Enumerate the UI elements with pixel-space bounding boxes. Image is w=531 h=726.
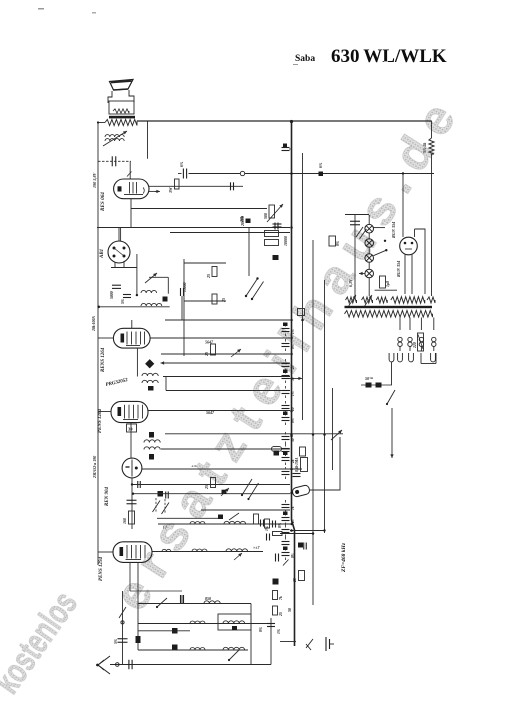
- transformer secondary winding: [345, 311, 433, 318]
- capacitor at 230,187: [230, 182, 232, 190]
- capacitor bus col y459: [282, 457, 290, 459]
- variable arrow det: [145, 273, 157, 283]
- capacitor bus col y419: [282, 417, 290, 419]
- tuning coil with core arrow: [105, 135, 124, 137]
- svg-text:25: 25: [204, 485, 209, 490]
- svg-text:1%: 1%: [291, 329, 295, 334]
- arrow var mid: [331, 430, 342, 440]
- transformer aux winding: [427, 297, 435, 303]
- wire grid line to right bus: [245, 173, 434, 175]
- capacitor bus col y330: [282, 328, 290, 330]
- resistor 25 a: [212, 267, 217, 277]
- wire rect frame: [415, 229, 426, 294]
- wire y622: [138, 623, 271, 625]
- svg-text:1%: 1%: [291, 391, 295, 396]
- tube RENS1264-1 envelope: [113, 328, 150, 348]
- resistor col 520: [265, 519, 270, 528]
- resistor 25 b: [212, 294, 217, 304]
- junction: [290, 172, 293, 175]
- transformer arrows: [348, 295, 356, 307]
- svg-text:50: 50: [291, 438, 295, 442]
- wire IF1 cathode: [136, 348, 138, 376]
- junction: [290, 433, 293, 436]
- svg-text:630 WL/WLK: 630 WL/WLK: [331, 46, 447, 67]
- svg-text:7k: 7k: [279, 596, 283, 600]
- wire coil right leg: [147, 121, 149, 159]
- wire y524: [158, 523, 290, 525]
- coil 000 r1: [190, 522, 205, 525]
- wire ren904 cathode: [131, 478, 133, 529]
- wire ant vert: [122, 591, 124, 665]
- capsule y449: [272, 447, 282, 452]
- ground cap ant: [128, 660, 130, 670]
- svg-text:8%: 8%: [278, 523, 282, 528]
- switch mid a: [242, 479, 252, 495]
- blob det col: [273, 255, 279, 260]
- output transformer box: [109, 101, 134, 114]
- svg-text:6%: 6%: [318, 162, 323, 168]
- svg-text:50: 50: [287, 608, 292, 612]
- junction square: [319, 172, 324, 177]
- svg-text:220: 220: [413, 342, 417, 349]
- wire IF1 aux: [161, 353, 290, 355]
- wire y533: [280, 533, 313, 535]
- junction: [290, 492, 293, 495]
- wire IF y376: [163, 376, 290, 378]
- svg-text:2MA52·a 190: 2MA52·a 190: [92, 456, 97, 479]
- wire tube1 cathode down: [130, 199, 132, 228]
- wire top bus jog: [136, 121, 138, 123]
- speck a: [38, 8, 44, 10]
- mains pin 4: [431, 353, 436, 362]
- speck c: [293, 64, 298, 65]
- svg-text:RGN 354: RGN 354: [396, 261, 401, 277]
- antenna: [98, 656, 110, 674]
- svg-text:REN 904: REN 904: [105, 486, 110, 506]
- svg-text:2k: 2k: [291, 459, 295, 464]
- svg-text:0,2k·1MA: 0,2k·1MA: [295, 457, 299, 472]
- svg-text:190 5,8V: 190 5,8V: [92, 171, 97, 188]
- wire IF2 plate: [148, 410, 290, 412]
- fuse pair: [366, 383, 372, 388]
- wire v249: [248, 228, 250, 277]
- watermark diagonal 'kostenlos ersatzteilhaus.de': [0, 84, 473, 701]
- blob col 453: [274, 451, 280, 456]
- coil 3000 b2: [223, 647, 245, 650]
- AGC diagonal arrow: [267, 204, 283, 222]
- svg-text:8%: 8%: [291, 418, 295, 423]
- capacitor gnd right: [325, 637, 327, 651]
- arrow out: [234, 553, 242, 560]
- svg-text:8%: 8%: [336, 241, 340, 246]
- coil box 10000 b: [265, 240, 279, 246]
- junction: [290, 410, 293, 413]
- blob pent: [136, 636, 141, 643]
- IF coil 1b: [142, 380, 158, 383]
- resistor r1 col: [254, 514, 259, 524]
- capacitor v271: [267, 623, 275, 625]
- coil 000 b2: [190, 648, 205, 651]
- wire v332: [332, 388, 334, 470]
- wire IF2 cathode: [130, 423, 132, 458]
- wire y434: [165, 433, 343, 435]
- capacitor col: [273, 223, 282, 225]
- wire lamp column: [368, 215, 370, 224]
- blob IF1 low: [148, 386, 154, 391]
- wire y510: [201, 509, 290, 511]
- bracket box osc: [218, 614, 251, 630]
- svg-text:1%: 1%: [277, 629, 281, 634]
- wire anode feed: [149, 185, 243, 187]
- transformer filament winding 2: [362, 297, 373, 303]
- capacitor bus col y377: [282, 375, 290, 377]
- dial lamp 2: [365, 239, 374, 248]
- wire mains lower: [391, 408, 393, 452]
- wire det mid: [165, 319, 290, 321]
- switch dashes a: [155, 498, 157, 512]
- switch b2: [229, 650, 239, 660]
- capacitor 5000 left: [112, 284, 121, 286]
- osc coil b: [144, 447, 160, 450]
- svg-text:PENS 1264: PENS 1264: [98, 408, 103, 433]
- voltage tap 3: [420, 318, 422, 331]
- junction: [312, 433, 315, 436]
- wire v271: [270, 618, 272, 665]
- svg-text:RENS 1264: RENS 1264: [101, 347, 106, 372]
- tube RENS1294 envelope: [113, 542, 152, 563]
- speck d: [384, 61, 388, 62]
- svg-text:160: 160: [122, 518, 127, 524]
- wire y603: [138, 603, 251, 605]
- svg-text:5647: 5647: [206, 410, 215, 415]
- svg-text:×±7: ×±7: [253, 545, 260, 550]
- resistor 3W: [175, 179, 180, 189]
- capacitor bus col y345: [282, 343, 290, 345]
- wire IF y390: [166, 390, 290, 392]
- coil 22 out: [162, 549, 171, 551]
- wire y172 end: [423, 173, 432, 175]
- transformer filament winding 3: [376, 297, 387, 303]
- capacitor under: [293, 473, 301, 475]
- blob bus 543: [298, 543, 303, 548]
- blob osc b: [149, 454, 154, 460]
- wire right bus: [431, 121, 433, 138]
- coil 000 b1: [190, 621, 205, 624]
- blob b1: [232, 626, 237, 630]
- arrow bus y378: [284, 377, 302, 379]
- capacitor bus col y450: [282, 448, 290, 450]
- svg-text:25: 25: [279, 612, 283, 617]
- capacitor bus col y554: [282, 552, 290, 554]
- capacitor bus col y438: [282, 436, 290, 438]
- blob grid leak: [158, 491, 164, 497]
- mains pin 3: [409, 353, 414, 362]
- wire out row: [152, 551, 263, 553]
- svg-text:6,3V: 6,3V: [348, 279, 353, 287]
- wire v184: [183, 259, 185, 356]
- capacitor AGC: [274, 223, 276, 230]
- junction: [312, 532, 315, 535]
- ground symbol: [306, 639, 313, 650]
- capacitor bus col y519: [282, 517, 290, 519]
- coil 000 det: [141, 303, 162, 306]
- wire v313: [312, 240, 314, 605]
- blob 20k: [246, 219, 251, 224]
- resistor 160: [129, 511, 135, 524]
- svg-text:25: 25: [206, 274, 211, 279]
- wire y653: [138, 649, 248, 651]
- wire lamp top bar: [345, 214, 369, 216]
- coil 3000 r1: [224, 521, 246, 524]
- blob pol a: [172, 628, 178, 634]
- voltage selector 220: [418, 333, 424, 351]
- vert to AB1: [120, 228, 122, 242]
- capacitor bus col y506: [282, 504, 290, 506]
- wire AB1 stem: [118, 228, 120, 242]
- box 311: [298, 309, 305, 316]
- wire gnd rail: [97, 227, 290, 229]
- resistor 500 col: [269, 205, 275, 218]
- blob det: [163, 297, 168, 302]
- capacitor 6% coupling: [178, 173, 182, 175]
- wire IF y363: [161, 362, 290, 364]
- mains pin 1: [389, 353, 394, 362]
- resistor 25 ren: [211, 478, 216, 488]
- transformer primary winding: [391, 297, 425, 304]
- capacitor 5pc: [123, 294, 131, 296]
- junction: [290, 529, 293, 532]
- resistor 25 bus: [299, 571, 305, 581]
- wire top HT bus: [137, 120, 432, 122]
- blob osc a: [149, 432, 154, 438]
- junction: [290, 337, 293, 340]
- svg-text:AB1: AB1: [100, 249, 105, 259]
- resistor col 592: [273, 591, 278, 600]
- svg-text:6%: 6%: [179, 161, 184, 167]
- hum-bucking coil resistor W: [113, 109, 129, 113]
- svg-text:500: 500: [263, 213, 268, 219]
- wire left rail: [97, 123, 99, 566]
- dial lamp 3: [365, 254, 374, 263]
- switch lamp left: [356, 227, 363, 237]
- capacitor C-af: [98, 160, 131, 162]
- capacitor ant: [118, 638, 128, 640]
- svg-text:20k·100A: 20k·100A: [92, 316, 96, 332]
- tube RENS1264-2 envelope: [111, 401, 148, 422]
- resistor 25 IF1: [211, 344, 216, 355]
- coil 850: [204, 601, 220, 604]
- switch wave a: [246, 279, 258, 297]
- resistor 302-455: [300, 447, 306, 456]
- wire lamp bottom: [375, 289, 397, 291]
- resistor col 608: [273, 606, 278, 615]
- svg-text:7k: 7k: [291, 506, 295, 510]
- coil 3000 out: [226, 549, 248, 552]
- tuning indicator: [292, 485, 311, 498]
- capacitor col 537: [266, 534, 268, 541]
- wire L340: [310, 437, 340, 490]
- osc coil a: [144, 440, 160, 443]
- node open circle: [240, 171, 244, 175]
- speck b: [92, 12, 96, 14]
- wire v251: [250, 604, 252, 665]
- box 30: [127, 424, 137, 432]
- speaker magnet bracket: [108, 90, 134, 103]
- coil 3000 b1: [223, 621, 245, 624]
- wire y493: [133, 493, 290, 495]
- bus bottom rail: [280, 641, 296, 643]
- svg-text:ZF=468 kHz: ZF=468 kHz: [341, 542, 347, 573]
- junction: [290, 353, 293, 356]
- wire rect legs: [404, 255, 406, 295]
- svg-text:25: 25: [221, 298, 226, 303]
- bus top capacitor: [282, 147, 290, 149]
- junction: [290, 523, 293, 526]
- transformer core bar: [109, 116, 135, 119]
- capacitor bus col y473: [282, 471, 290, 473]
- switch mid b: [249, 483, 259, 499]
- transformer primary winding: [105, 120, 137, 126]
- coil 22 det: [141, 290, 157, 293]
- capacitor bus col y365: [282, 363, 290, 365]
- tube AB1 envelope: [108, 241, 130, 263]
- wire speaker line left: [98, 122, 105, 124]
- wire bottom rail: [110, 664, 271, 666]
- arrow lamp4 feed: [359, 273, 365, 275]
- capacitor 1u8 box: [380, 276, 386, 288]
- tube RES064 envelope: [114, 179, 149, 199]
- wire osc top2: [161, 448, 290, 450]
- capacitor bus col y543: [282, 541, 290, 543]
- svg-text:20k: 20k: [239, 216, 244, 223]
- svg-text:25: 25: [204, 352, 209, 357]
- transformer core: [345, 306, 433, 308]
- arrow IF1: [231, 349, 241, 357]
- junction: [290, 435, 293, 438]
- svg-text:30: 30: [128, 427, 133, 432]
- wire y530: [290, 530, 325, 532]
- svg-text:1µ8: 1µ8: [386, 281, 390, 287]
- switch lamp3 arm: [373, 250, 386, 256]
- mains switch: [387, 390, 395, 404]
- capacitor ren904: [127, 499, 137, 501]
- svg-text:3W: 3W: [168, 187, 173, 194]
- svg-text:50: 50: [291, 377, 295, 381]
- wire y484: [132, 484, 290, 486]
- switch wave b: [252, 282, 264, 300]
- capacitor junction det: [180, 288, 182, 296]
- svg-text:25: 25: [291, 365, 295, 370]
- rectifier tube RGN354: [400, 237, 418, 255]
- coil 000 out: [192, 549, 207, 552]
- capacitor y598: [180, 595, 182, 603]
- svg-text:5000: 5000: [110, 291, 114, 299]
- svg-text:25: 25: [293, 578, 297, 583]
- wire IF1 plate: [150, 337, 290, 339]
- wire AB1 bottom: [114, 262, 116, 268]
- junction: [290, 468, 293, 471]
- junction: [301, 319, 304, 322]
- switch y603: [157, 598, 167, 607]
- svg-text:10000: 10000: [283, 236, 288, 246]
- svg-text:5%: 5%: [114, 639, 118, 644]
- svg-text:RGN 354: RGN 354: [391, 222, 396, 238]
- blob col 580: [273, 579, 279, 585]
- capacitor col 558: [275, 554, 277, 562]
- svg-text:5%·2k: 5%·2k: [422, 143, 427, 153]
- arrow ren: [221, 488, 229, 496]
- svg-text:850: 850: [205, 596, 211, 601]
- junction: [290, 226, 293, 229]
- svg-text:RES 064: RES 064: [100, 192, 106, 211]
- wire det low rail: [98, 306, 170, 308]
- switch ant: [119, 607, 126, 618]
- transformer filament winding 1: [346, 297, 357, 303]
- wire gnd rail 2: [170, 232, 290, 234]
- wire tube anode stub: [129, 161, 131, 179]
- wire pent cathode: [137, 562, 139, 650]
- svg-text:PENS 1294: PENS 1294: [99, 556, 104, 581]
- resistor WW vertical: [429, 138, 434, 154]
- svg-text:8%: 8%: [291, 344, 295, 349]
- blob diamond IF1: [145, 359, 154, 368]
- wire mains switch drop: [391, 362, 393, 385]
- svg-text:8%: 8%: [259, 627, 263, 632]
- tube REN904 envelope: [122, 458, 142, 478]
- dial lamp 1: [365, 224, 374, 233]
- svg-text:5%: 5%: [121, 299, 125, 304]
- capacitor r1 col: [260, 520, 262, 527]
- dial lamp 4: [365, 269, 374, 278]
- voltage tap 1: [399, 318, 401, 331]
- bus main vertical: [292, 122, 295, 647]
- switch bus 562: [283, 560, 289, 566]
- wire ren904 plate: [142, 468, 302, 470]
- capacitor bus col y407: [282, 405, 290, 407]
- resistor 8pc mid: [329, 236, 336, 246]
- junction: [290, 319, 293, 322]
- resistor flat 533: [273, 532, 283, 536]
- wire lamp1 tap: [374, 227, 386, 229]
- wire mains bottom L: [421, 363, 436, 365]
- speaker LS: [110, 80, 134, 91]
- wire v302: [302, 153, 304, 420]
- svg-text:1%: 1%: [265, 526, 269, 531]
- capacitor bus col y531: [282, 529, 290, 531]
- wire band b: [184, 300, 226, 302]
- wire det coil link: [149, 276, 168, 278]
- IF coil 1a: [142, 373, 158, 376]
- mains pin 2: [398, 353, 403, 362]
- wire v324: [324, 280, 326, 533]
- blob r1: [218, 515, 223, 520]
- switch dashes b: [164, 499, 166, 514]
- svg-text:8%: 8%: [291, 553, 295, 558]
- wire band a: [184, 262, 226, 264]
- voltage tap 4: [433, 318, 435, 331]
- resistor 02k1MA: [301, 458, 308, 472]
- coil box 10000 a: [265, 231, 279, 237]
- wire v403: [402, 174, 404, 238]
- svg-text:+∞: +∞: [191, 464, 198, 469]
- node left rail top: [97, 121, 99, 123]
- svg-text:50™: 50™: [365, 376, 374, 381]
- capacitor bus col y392: [282, 390, 290, 392]
- svg-text:Saba: Saba: [295, 54, 315, 64]
- junction: [323, 433, 326, 436]
- voltage tap 2: [409, 318, 411, 331]
- wire blob link: [138, 630, 190, 632]
